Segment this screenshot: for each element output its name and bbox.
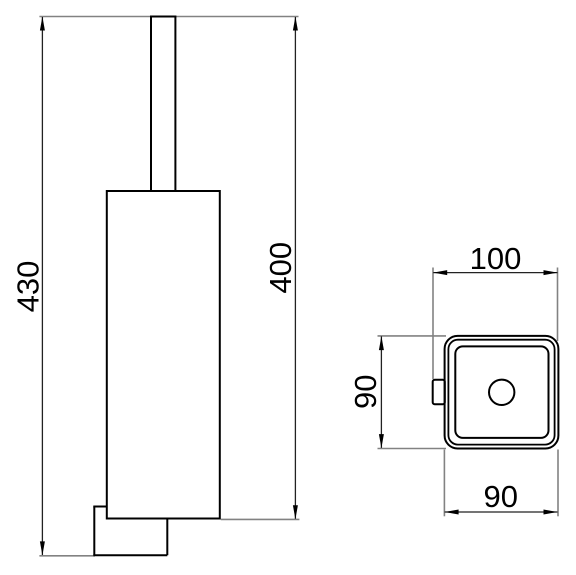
dimension 430 arrow down: [40, 541, 45, 555]
mounting tab: [433, 380, 445, 405]
dimension 400 arrow up: [293, 17, 298, 31]
svg-text:90: 90: [484, 479, 518, 514]
wire: ext line 100 left: [432, 268, 434, 380]
center hole circle: [489, 380, 514, 405]
dimension 100 arrow left: [433, 270, 447, 275]
dimension 400 arrow down: [293, 505, 298, 519]
wire: ext line 100 right: [557, 268, 559, 342]
dimension 90-left arrow up: [379, 336, 384, 350]
wire: ext line 90-bottom left: [443, 450, 445, 517]
inner rounded square: [455, 346, 548, 438]
svg-text:400: 400: [263, 242, 298, 294]
dimension 90-bottom line: [445, 511, 558, 513]
wire: ext line 90-bottom right: [557, 450, 559, 517]
dimension 90-bottom arrow right: [544, 510, 558, 515]
dimension 100 arrow right: [544, 270, 558, 275]
dimension 430 line: [41, 17, 43, 555]
svg-text:430: 430: [11, 261, 46, 313]
wire: ext line 90-left bottom: [378, 448, 447, 450]
dimension 430 arrow up: [40, 17, 45, 31]
dimension 100 line: [433, 272, 557, 274]
brush handle rod: [150, 17, 176, 192]
dimension 90-left arrow down: [379, 434, 384, 448]
wall bracket: [93, 507, 167, 556]
svg-text:90: 90: [348, 375, 383, 409]
wire: bottom extension line for 430 dim: [39, 555, 95, 557]
dimension 90-bottom arrow left: [445, 510, 459, 515]
dimension 90-left line: [380, 336, 382, 448]
wire: top extension line: [39, 16, 298, 18]
wire: bottom extension line for 400 dim: [221, 518, 300, 520]
outer rounded square: [445, 336, 559, 449]
holder body: [107, 191, 220, 519]
dimension 400 line: [294, 17, 296, 519]
middle contour: [448, 340, 554, 445]
wire: ext line 90-left top: [378, 335, 447, 337]
svg-text:100: 100: [470, 241, 522, 276]
